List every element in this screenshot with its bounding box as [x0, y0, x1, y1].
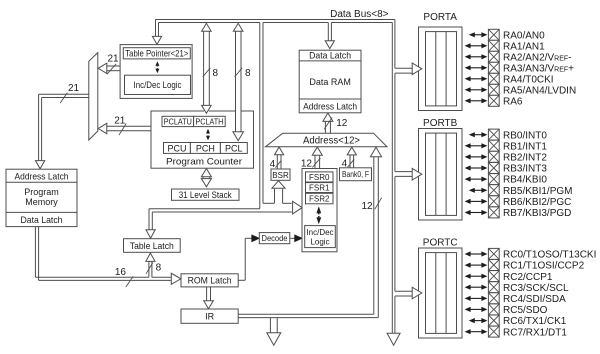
pin arrow PORTA row 5 [470, 89, 482, 91]
arrow 8 riser2 down [233, 132, 244, 141]
svg-text:Program: Program [24, 187, 59, 197]
register Table Pointer<21> [123, 48, 190, 59]
pin pad PORTC row 7 [488, 326, 499, 337]
section ram data latch [299, 60, 361, 62]
pin pad PORTA row 0 [488, 29, 499, 40]
block Inc/Dec Logic upper [125, 75, 191, 94]
svg-text:FSR2: FSR2 [309, 195, 330, 204]
mux 21-bit address [89, 53, 98, 140]
pin pad PORTB row 4 [488, 174, 499, 185]
svg-text:PCLATU: PCLATU [164, 117, 192, 126]
wire bus branch to PORTC [395, 290, 414, 292]
register PCH [190, 143, 220, 154]
pin arrow PORTB row 5 [474, 189, 482, 191]
block FSR outer [302, 169, 337, 252]
svg-text:RA4/T0CKI: RA4/T0CKI [503, 74, 554, 85]
pin arrow PORTB row 7 [470, 212, 482, 214]
svg-text:IR: IR [205, 312, 215, 322]
pin pad PORTB row 2 [488, 151, 499, 162]
pin arrow PORTB row 0 [474, 134, 482, 136]
svg-text:PORTA: PORTA [423, 12, 457, 23]
svg-text:16: 16 [115, 267, 127, 278]
wire right data bus vertical [391, 23, 393, 334]
register PCL [220, 143, 247, 154]
pin arrow PORTC row 2 [470, 275, 482, 277]
register FSR0 [306, 172, 334, 182]
wire bus branch to PORTB [395, 171, 414, 173]
arrow into FSR block [293, 201, 303, 214]
svg-text:21: 21 [108, 53, 120, 64]
block ROM latch [181, 274, 238, 287]
arrow pclat to pc [206, 129, 210, 134]
svg-text:RC2/CCP1: RC2/CCP1 [503, 272, 553, 283]
svg-text:RC5/SDO: RC5/SDO [503, 305, 548, 316]
section data latch [6, 211, 77, 213]
pin pad PORTA row 2 [488, 51, 499, 62]
svg-text:RB6/KBI2/PGC: RB6/KBI2/PGC [503, 197, 571, 208]
svg-text:FSR0: FSR0 [309, 173, 330, 182]
svg-text:RA0/AN0: RA0/AN0 [503, 30, 545, 41]
section address latch [6, 181, 77, 183]
pin pad PORTB row 3 [488, 163, 499, 174]
wire ROM latch wire to table latch [148, 261, 150, 277]
wire ROM latch to decode [238, 279, 245, 281]
pin arrow PORTC row 1 [470, 264, 482, 266]
wire bus drop to BSR area [259, 23, 261, 209]
wire IR output [238, 313, 374, 315]
arrow FSR inc/dec [316, 206, 321, 213]
section ram address latch [299, 98, 361, 100]
svg-text:Program Counter: Program Counter [166, 156, 242, 167]
register FSR2 [306, 193, 334, 204]
block BSR [271, 169, 290, 180]
block program memory [6, 169, 77, 226]
pin arrow PORTB row 1 [470, 145, 482, 147]
pin pad PORTB row 6 [488, 196, 499, 207]
pin arrow PORTA row 6 [470, 100, 482, 102]
svg-text:Data RAM: Data RAM [309, 77, 351, 87]
svg-text:BSR: BSR [272, 171, 289, 180]
svg-text:Logic: Logic [310, 237, 329, 246]
svg-text:Address<12>: Address<12> [303, 135, 360, 146]
wire Bank0 to address mux [349, 155, 351, 168]
svg-text:Address Latch: Address Latch [303, 101, 357, 111]
wire address mux to data ram [324, 121, 326, 133]
arrow 8 riser1 up [202, 23, 212, 31]
arrow bus into PORTC [412, 287, 422, 299]
svg-text:8: 8 [156, 263, 162, 274]
arrow bus into PORTB [412, 168, 422, 180]
arrow bus into PORTA [412, 63, 422, 75]
pin pad PORTB row 7 [488, 207, 499, 218]
wire decode to inc/dec logic [290, 237, 295, 239]
pin arrow PORTA row 2 [470, 56, 482, 58]
block 31 level stack [172, 189, 240, 200]
svg-text:8: 8 [213, 68, 219, 79]
svg-text:12: 12 [301, 159, 313, 170]
port PORTB outer box [419, 129, 463, 221]
pin arrow PORTC row 7 [470, 331, 482, 333]
pin arrow PORTB row 2 [470, 156, 482, 158]
svg-text:RA6: RA6 [503, 96, 523, 107]
wire program memory to ROM latch [34, 227, 36, 278]
svg-text:21: 21 [68, 83, 80, 94]
pin arrow PORTB row 4 [470, 178, 482, 180]
svg-text:Table Latch: Table Latch [130, 241, 174, 251]
svg-text:RB7/KBI3/PGD: RB7/KBI3/PGD [503, 208, 571, 219]
pin arrow PORTA row 3 [470, 67, 482, 69]
arrow into BSR [272, 181, 285, 188]
pin pad PORTA row 3 [488, 62, 499, 73]
svg-text:RC0/T1OSO/T13CKI: RC0/T1OSO/T13CKI [503, 250, 596, 261]
svg-text:Data Bus<8>: Data Bus<8> [330, 9, 389, 20]
pin arrow PORTA row 1 [470, 45, 482, 47]
svg-text:RC3/SCK/SCL: RC3/SCK/SCL [503, 283, 569, 294]
svg-text:PCL: PCL [225, 143, 243, 153]
wire data bus<8> horizontal [156, 19, 395, 21]
block program counter outer [151, 111, 254, 168]
wire 8-bit bus to PCLATU [203, 31, 205, 105]
block IR [181, 309, 238, 323]
pin pad PORTB row 5 [488, 185, 499, 196]
wire table pointer to mux [107, 65, 121, 67]
svg-text:PCLATH: PCLATH [195, 117, 223, 126]
pin pad PORTC row 3 [488, 282, 499, 293]
arrow table pointer inc/dec [155, 61, 159, 66]
pin pad PORTA row 6 [488, 95, 499, 106]
pin pad PORTC row 5 [488, 304, 499, 315]
svg-text:12: 12 [361, 201, 373, 212]
port PORTA outer box [419, 27, 463, 111]
svg-text:PORTC: PORTC [423, 238, 458, 249]
svg-text:RB0/INT0: RB0/INT0 [503, 130, 547, 141]
pin arrow PORTC row 0 [470, 253, 482, 255]
svg-text:RB5/KBI1/PGM: RB5/KBI1/PGM [503, 186, 572, 197]
svg-text:31 Level Stack: 31 Level Stack [179, 190, 232, 200]
svg-text:Decode: Decode [262, 234, 289, 243]
svg-text:Inc/Dec Logic: Inc/Dec Logic [134, 80, 182, 91]
block Inc/Dec Logic lower [305, 226, 336, 248]
wire PC to stack [202, 177, 204, 179]
pin pad PORTB row 1 [488, 140, 499, 151]
pin arrow PORTC row 4 [470, 297, 482, 299]
svg-text:RB2/INT2: RB2/INT2 [503, 153, 547, 164]
wire FSR to address mux [314, 155, 316, 168]
svg-text:PORTB: PORTB [423, 118, 458, 129]
register PCU [164, 143, 191, 154]
wire bus to table pointer [155, 20, 157, 37]
svg-text:12: 12 [336, 118, 348, 129]
svg-text:RC6/TX1/CK1: RC6/TX1/CK1 [503, 316, 567, 327]
wire mux to address latch [39, 93, 89, 95]
pin pad PORTC row 4 [488, 293, 499, 304]
wire IR branch down [269, 318, 271, 333]
svg-text:Data Latch: Data Latch [21, 215, 63, 225]
register FSR1 [306, 183, 334, 193]
pin pad PORTA row 1 [488, 40, 499, 51]
pin arrow PORTC row 5 [470, 308, 482, 310]
block Bank0,F [340, 168, 372, 181]
block data ram [299, 50, 361, 113]
pin pad PORTC row 2 [488, 271, 499, 282]
wire riser channels over PC box [204, 110, 209, 111]
wire 8-bit bus to PCL [235, 31, 237, 132]
svg-text:PCH: PCH [196, 143, 215, 153]
svg-text:RB4/KBI0: RB4/KBI0 [503, 175, 547, 186]
svg-text:RC7/RX1/DT1: RC7/RX1/DT1 [503, 327, 567, 338]
svg-text:RC1/T1OSI/CCP2: RC1/T1OSI/CCP2 [503, 261, 585, 272]
pin arrow PORTA row 0 [474, 34, 482, 36]
svg-text:Address Latch: Address Latch [15, 171, 69, 181]
pin pad PORTB row 0 [488, 129, 499, 140]
svg-text:8: 8 [245, 68, 251, 79]
wire bus to data latch [327, 23, 329, 41]
pin arrow PORTC row 6 [474, 320, 482, 322]
mux address<12> [265, 133, 387, 147]
arrow 8 riser1 down [202, 105, 212, 113]
pin pad PORTC row 6 [488, 315, 499, 326]
block decode [259, 233, 290, 244]
pin arrow PORTA row 4 [470, 78, 482, 80]
svg-text:FSR1: FSR1 [309, 183, 330, 192]
port PORTB latch box [426, 133, 457, 215]
pin arrow PORTC row 3 [470, 286, 482, 288]
pin arrow PORTB row 6 [470, 200, 482, 202]
svg-text:Memory: Memory [25, 197, 58, 207]
svg-text:RB3/INT3: RB3/INT3 [503, 164, 547, 175]
wire to FSR and BSR [263, 202, 275, 204]
pin pad PORTA row 5 [488, 84, 499, 95]
arrow data bus bottom [387, 333, 400, 345]
svg-text:Data Latch: Data Latch [309, 51, 351, 61]
svg-text:Inc/Dec: Inc/Dec [306, 228, 333, 237]
pin pad PORTC row 1 [488, 260, 499, 271]
svg-text:Table Pointer<21>: Table Pointer<21> [125, 49, 188, 60]
wire program counter to mux [107, 125, 152, 127]
wire bus branch to PORTA [395, 67, 414, 69]
block table latch [124, 239, 181, 253]
wire ROM latch to IR [206, 287, 208, 301]
pin arrow PORTB row 3 [470, 167, 482, 169]
arrow 8 riser2 up [233, 23, 243, 31]
svg-text:RA5/AN4/LVDIN: RA5/AN4/LVDIN [503, 85, 576, 96]
register PCLATH [194, 116, 226, 126]
wire loop left to table latch [149, 208, 260, 210]
svg-text:RC4/SDI/SDA: RC4/SDI/SDA [503, 294, 566, 305]
register PCLATU [162, 116, 194, 126]
wire BSR to address mux [276, 155, 278, 169]
svg-text:21: 21 [114, 115, 126, 126]
pin pad PORTA row 4 [488, 73, 499, 84]
svg-text:RA1/AN1: RA1/AN1 [503, 41, 545, 52]
port PORTC latch box [426, 253, 457, 334]
arrow 12 into address mux [370, 147, 381, 157]
svg-text:PCU: PCU [167, 143, 186, 153]
svg-text:ROM Latch: ROM Latch [188, 276, 232, 286]
svg-text:Bank0, F: Bank0, F [342, 170, 369, 179]
pin pad PORTC row 0 [488, 248, 499, 259]
svg-text:RB1/INT1: RB1/INT1 [503, 141, 547, 152]
port PORTA latch box [426, 32, 457, 106]
block table pointer outer [120, 45, 192, 99]
port PORTC outer box [419, 248, 463, 338]
